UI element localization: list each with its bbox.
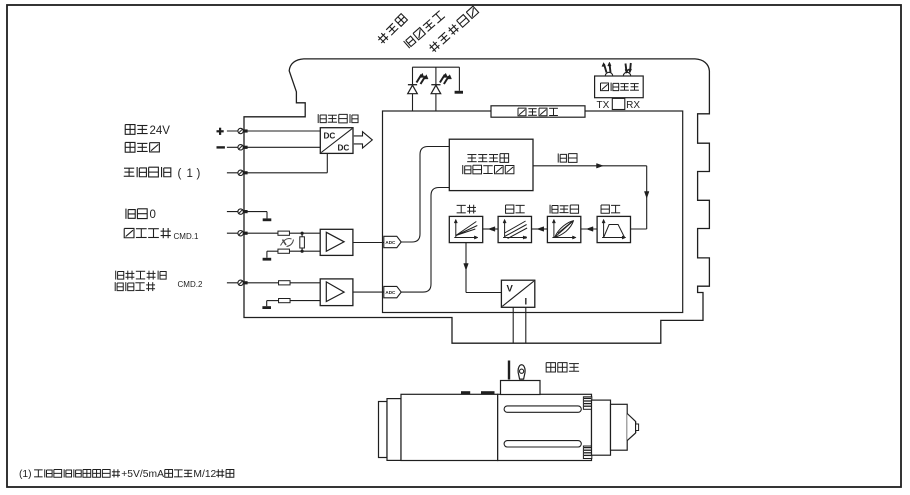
svg-text:ADC: ADC	[385, 240, 396, 245]
wire A2 output to ADC2	[353, 291, 384, 293]
svg-text:DC: DC	[324, 132, 336, 141]
svg-text:I: I	[525, 297, 528, 308]
plus sign (+24V terminal)	[217, 128, 224, 135]
microcontroller U4 box	[491, 106, 585, 117]
terminal X2 (power gnd)	[238, 145, 248, 150]
label 放大器状态 (rotated)	[428, 6, 479, 53]
label 信号0	[126, 209, 156, 221]
wire CMD1 to amp	[290, 232, 321, 234]
terminal X5 (CMD.1)	[238, 231, 248, 236]
linearity block (线性度)	[547, 205, 580, 243]
wire ramp to linearity	[581, 227, 597, 232]
wire signal (generator to ramp)	[533, 164, 649, 230]
svg-text:CMD.2: CMD.2	[178, 280, 203, 289]
logic reference signal generator U6	[449, 139, 533, 190]
op-amp A1 (CMD1 input amplifier)	[320, 229, 353, 255]
wire bias to gain	[483, 227, 498, 232]
label 电源地	[125, 142, 159, 152]
ADC U2 (CMD1 channel)	[384, 236, 401, 247]
resistor R4 (CMD2 series)	[279, 281, 291, 285]
svg-text:M/12: M/12	[193, 469, 216, 480]
wire CMD2 input	[227, 282, 279, 284]
svg-text:DC: DC	[338, 144, 350, 153]
svg-text:ADC: ADC	[385, 290, 396, 295]
svg-text:0: 0	[150, 209, 156, 221]
svg-text:+5V/5mA: +5V/5mA	[121, 469, 164, 480]
label 内部电源	[318, 114, 358, 123]
svg-text:1: 1	[187, 168, 193, 180]
ADC U3 (CMD2 channel)	[384, 286, 401, 297]
label 使能信号或/压力信号 CMD.2	[115, 271, 203, 291]
svg-text:(: (	[178, 168, 182, 180]
ground (CMD1 network)	[263, 251, 272, 260]
label 指示灯 (rotated)	[376, 13, 407, 44]
wire linearity to bias	[532, 227, 548, 232]
IR rays TX	[602, 62, 611, 72]
amplifier housing outline (with terminal bus left edge and castellated right edge)	[244, 59, 709, 343]
resistor R2 (CMD1 shunt vertical)	[300, 233, 305, 251]
output power arrow (from DC/DC)	[354, 132, 373, 148]
svg-text:24V: 24V	[150, 125, 171, 137]
footnote (1)为外部电位器输出的+5V/5mA不适合M/12选项	[19, 469, 234, 480]
wire CMD2 to amp	[290, 282, 320, 284]
resistor R3 (CMD1 lower series)	[278, 249, 290, 253]
IR window box	[612, 98, 625, 109]
ground (CMD2 network)	[262, 301, 271, 309]
wire CMD1 lower rail	[267, 250, 320, 252]
svg-text:CMD.1: CMD.1	[174, 232, 199, 241]
node A (CMD1 junction)	[301, 232, 304, 235]
IR dome RX	[623, 72, 630, 76]
wire ADC2 to reference generator	[401, 188, 449, 293]
gain block (增益)	[449, 205, 482, 243]
suppressor filter F1 (arcs)	[281, 238, 294, 246]
wire CMD1 input	[227, 232, 278, 234]
wire gain to V/I converter	[464, 243, 502, 293]
LED D2 (amplifier status)	[431, 67, 451, 111]
terminal X6 (CMD.2)	[238, 280, 248, 285]
resistor R1 (CMD1 series)	[278, 231, 290, 235]
solenoid body (电磁铁 drawing)	[379, 381, 639, 461]
label 电磁铁	[546, 363, 579, 372]
svg-text:RX: RX	[626, 100, 640, 111]
wire output supply	[227, 153, 327, 172]
bias block (偏流)	[498, 205, 531, 243]
terminal X3 (output supply)	[238, 170, 248, 175]
minus sign (power ground terminal)	[217, 146, 225, 148]
label 参考信号 CMD.1	[124, 228, 199, 241]
svg-text:V: V	[507, 284, 514, 295]
wire CMD2 lower rail	[267, 300, 321, 302]
op-amp A2 (CMD2 input amplifier)	[320, 279, 353, 306]
wire signal 0	[227, 211, 267, 213]
IR rays RX	[625, 63, 632, 73]
LED D1 (coil status)	[408, 67, 428, 111]
label 信号	[558, 153, 577, 162]
ground (LED rail)	[455, 67, 463, 94]
resistor R5 (CMD2 lower series)	[279, 299, 291, 303]
wire ADC1 to reference generator	[401, 147, 449, 243]
wire power ground input	[227, 146, 320, 148]
pin label RX	[626, 100, 640, 111]
label 电源24V	[125, 125, 170, 137]
wire LED supply rail	[412, 66, 459, 68]
node B (CMD1 lower junction)	[301, 250, 304, 253]
terminal X1 (+24V)	[238, 128, 248, 133]
wire solenoid drive a	[512, 307, 514, 343]
infrared interface U5 box	[595, 76, 644, 98]
V/I converter U7	[501, 280, 534, 307]
DC/DC converter U1	[320, 128, 353, 154]
IR dome TX	[605, 72, 612, 76]
ramp block (斜坡)	[597, 205, 630, 243]
svg-text:): )	[197, 168, 201, 180]
svg-text:TX: TX	[597, 100, 610, 111]
inner circuit board box	[383, 111, 683, 313]
wire A1 output to ADC1	[353, 242, 384, 244]
solenoid pin 2 (formed with hole)	[518, 365, 525, 379]
label 输出电源 (1)	[124, 167, 201, 180]
wire +24V input	[227, 130, 320, 132]
solenoid pin 1 (straight)	[508, 361, 510, 380]
pin label TX	[597, 100, 610, 111]
label 线圈状态 (rotated)	[404, 10, 446, 48]
wire solenoid drive b	[525, 307, 527, 343]
terminal X4 (signal 0)	[238, 209, 248, 214]
ground (signal 0)	[263, 212, 272, 222]
svg-text:(1): (1)	[19, 469, 32, 480]
